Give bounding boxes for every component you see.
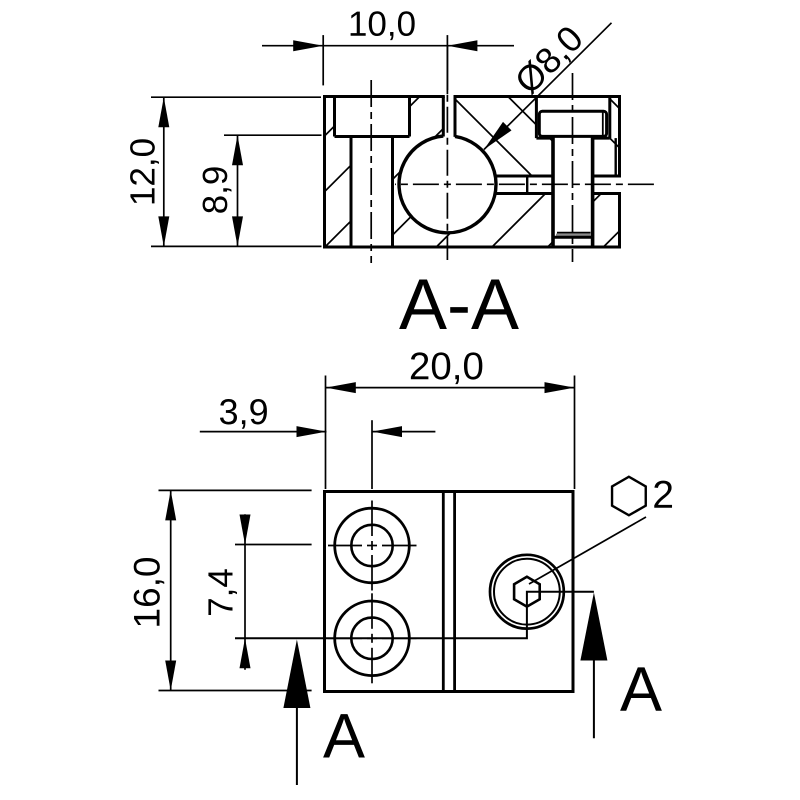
leader D8,0 [484, 23, 612, 150]
slit end step line [526, 176, 528, 194]
text 16,0 [134, 558, 165, 626]
text 10,0 [351, 11, 415, 40]
dimension 16,0 [159, 490, 312, 690]
dimension 7,4 [235, 514, 312, 669]
centerline bore horizontal [395, 183, 658, 185]
dimension 20,0 [326, 376, 575, 490]
text A-A [399, 279, 519, 329]
text 7,4 [208, 569, 237, 615]
dimension 10,0 [262, 35, 514, 90]
text 12,0 [130, 139, 159, 203]
text A left [323, 714, 365, 757]
text 3,9 [220, 399, 267, 429]
vertical slit walls [443, 97, 455, 137]
dimension 3,9 [200, 420, 436, 489]
centerline left screw axis [370, 80, 372, 263]
screw shaft [553, 136, 593, 246]
dimension 12,0 [151, 97, 322, 246]
screw head inner edge [602, 113, 604, 136]
lower hole crosshair [328, 593, 417, 683]
recess right wall [615, 138, 617, 176]
screw head [539, 111, 606, 136]
text A right [620, 667, 662, 710]
section arrow left [283, 640, 310, 709]
plan slit lines [443, 492, 454, 692]
centerline right screw axis [572, 73, 574, 262]
text 8,9 [203, 167, 232, 212]
clamp screw circles [490, 555, 564, 629]
bore circle D8 [399, 136, 496, 233]
hatch upper jaw opposite 45deg [453, 97, 688, 177]
plan view outline [325, 492, 574, 692]
section arrow right [580, 593, 607, 661]
dimension 8,9 [224, 135, 322, 246]
horizontal slit [495, 176, 620, 194]
lower hole [335, 601, 410, 676]
section cut line [235, 592, 594, 639]
left counterbore [335, 97, 410, 137]
screw end lines [557, 232, 591, 234]
text 2 [654, 481, 672, 508]
centerline bore vertical [446, 46, 448, 94]
hatch corner line at counterbore shoulder right [610, 138, 620, 148]
upper hole crosshair [328, 501, 417, 591]
hatch main body 45deg [214, 97, 754, 248]
upper hole [335, 508, 410, 583]
leader to hex socket [529, 517, 646, 584]
right counterbore [536, 97, 609, 139]
text dia 8,0 [513, 24, 588, 99]
hex size symbol [612, 477, 646, 516]
left screw clearance hole [351, 137, 393, 247]
hex socket [514, 577, 540, 607]
section block outline [325, 97, 620, 248]
text 20,0 [411, 352, 482, 384]
